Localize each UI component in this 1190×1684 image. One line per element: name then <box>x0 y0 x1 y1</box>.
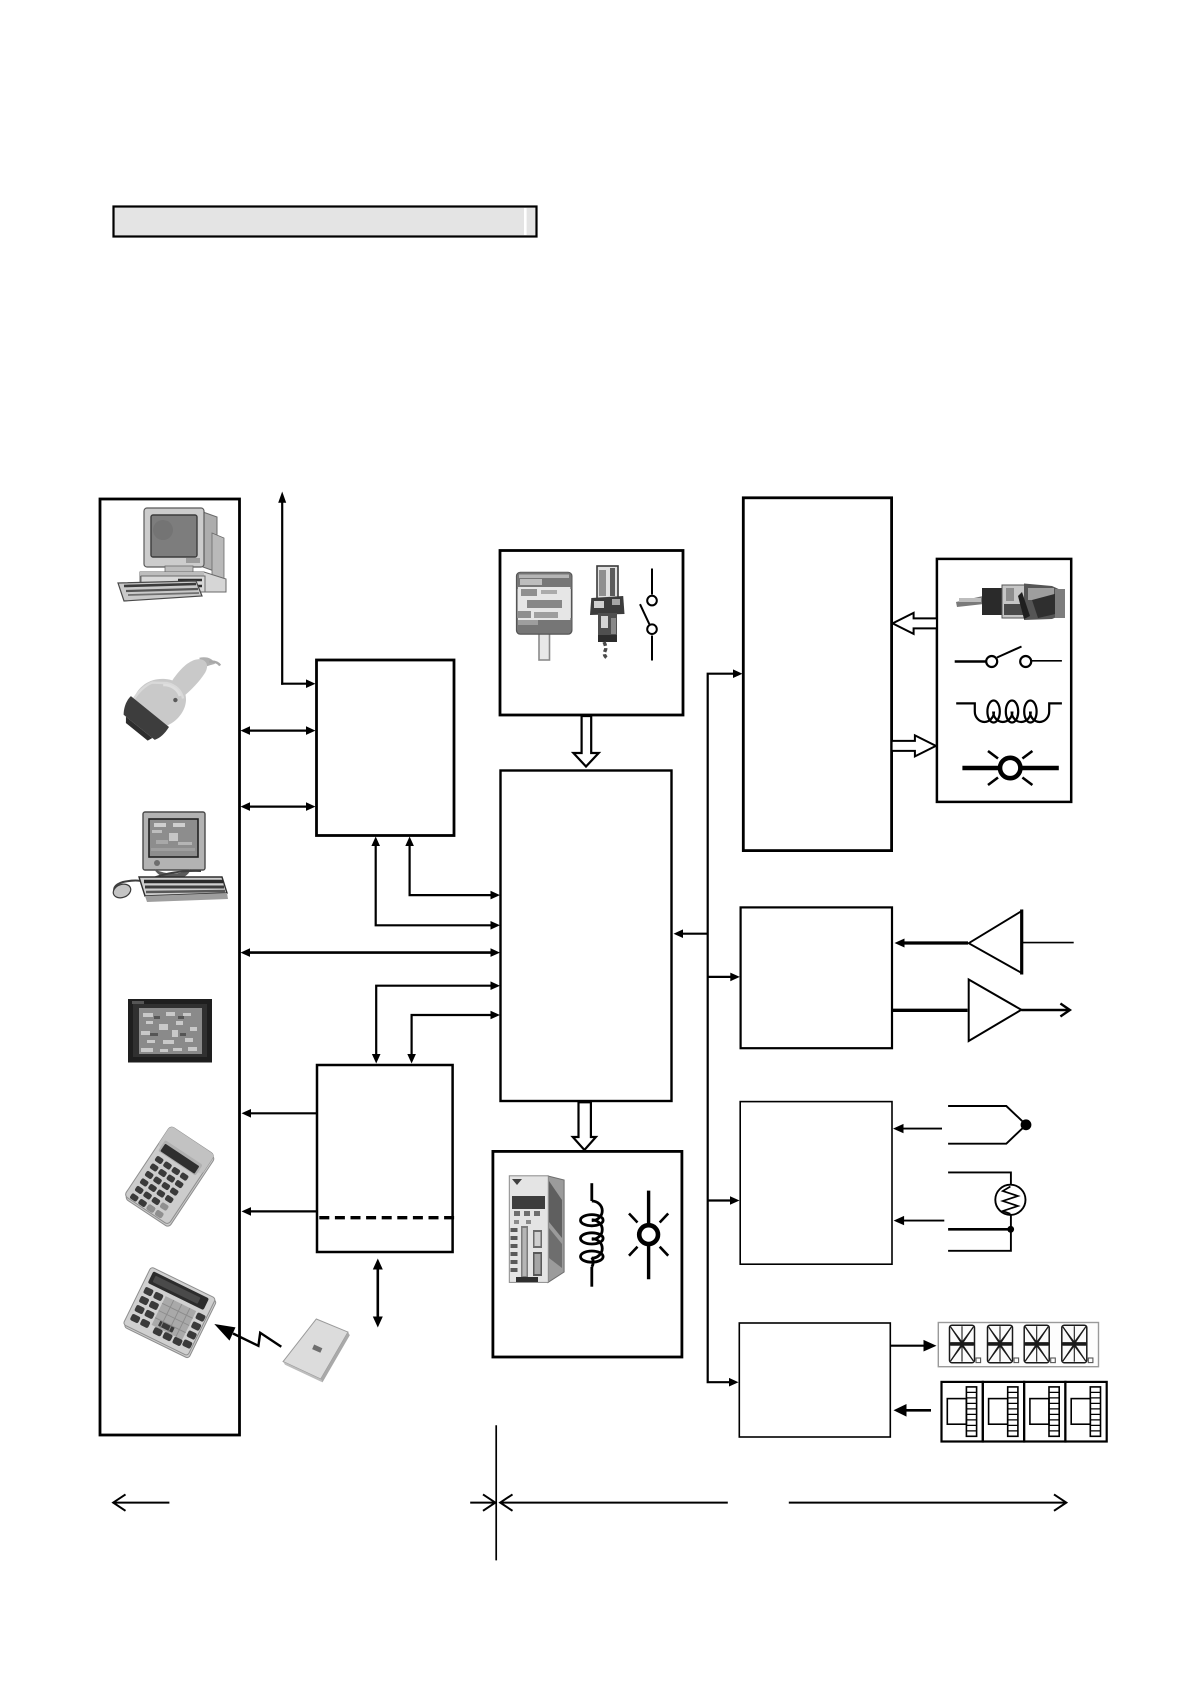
thermocouple symbol <box>893 1106 1031 1144</box>
dimension arrow middle section <box>500 1494 728 1510</box>
alphanumeric display image <box>938 1323 1098 1367</box>
communication module box <box>317 660 455 836</box>
wire L CPU-expansion outer <box>372 981 500 1063</box>
wire up-network arrow <box>278 492 315 689</box>
dimension arrow right section <box>789 1494 1067 1510</box>
desktop PC image <box>118 508 226 601</box>
solenoid valve image <box>956 584 1065 621</box>
temperature module box <box>740 1102 892 1265</box>
barcode scanner image <box>116 634 221 747</box>
NO contact symbol <box>955 647 1062 668</box>
wire expansion bus bidir vertical <box>373 1259 383 1328</box>
rotary encoder image <box>517 573 572 661</box>
wire bidir devices-comm lower <box>241 802 316 811</box>
hollow arrow I/O-to-field <box>892 735 936 756</box>
thumbwheel switch image <box>942 1382 1107 1442</box>
analog input amplifier <box>895 910 1074 975</box>
wire L comm-CPU inner <box>405 837 500 900</box>
memory card image <box>283 1319 350 1382</box>
wireless zigzag arrow <box>214 1324 281 1347</box>
wire expansion-devices lower <box>242 1207 317 1216</box>
servo output box <box>493 1151 682 1357</box>
analog module box <box>741 907 892 1048</box>
CAD workstation image <box>111 812 228 902</box>
wire L CPU-expansion inner <box>407 1011 500 1064</box>
hollow arrow CPU-to-servo <box>573 1102 596 1150</box>
title bar <box>114 207 537 237</box>
proximity sensor image <box>590 566 625 658</box>
RTD symbol <box>894 1172 1026 1250</box>
relay coil symbol <box>956 701 1062 723</box>
HMI panel image <box>128 999 212 1063</box>
thumbwheel in arrow <box>894 1404 932 1417</box>
wire expansion-devices upper <box>242 1109 317 1118</box>
wire bidir devices-CPU long <box>241 948 501 957</box>
sensor input box <box>500 551 683 716</box>
wire bidir devices-comm upper <box>241 726 316 735</box>
servo drive image <box>509 1176 564 1283</box>
expansion module box <box>317 1065 457 1252</box>
bus branch to CPU <box>674 929 708 938</box>
handheld programmer 1 image <box>123 1126 216 1228</box>
wire L comm-CPU outer <box>371 837 500 930</box>
field devices box <box>937 559 1071 802</box>
display out arrow <box>890 1340 936 1352</box>
servo lamp symbol <box>629 1191 668 1280</box>
ARROWS <box>241 492 743 1387</box>
bus branch to analog box <box>708 973 740 982</box>
CPU box <box>501 771 672 1102</box>
handheld programmer 2 image <box>122 1267 217 1359</box>
right I/O bus trunk <box>708 669 743 1386</box>
dimension arrow left section <box>113 1494 169 1510</box>
servo coil symbol <box>581 1183 604 1287</box>
analog output amplifier <box>892 980 1070 1042</box>
programming devices box <box>100 499 240 1435</box>
indicator lamp symbol <box>962 751 1058 785</box>
hollow arrow field-to-I/O <box>893 613 937 634</box>
dimension arrow into divider <box>470 1494 495 1510</box>
display module box <box>739 1323 890 1437</box>
limit switch symbol <box>640 569 657 661</box>
dimension divider line <box>495 1425 497 1560</box>
bus branch to temperature box <box>708 1196 740 1205</box>
digital I/O box <box>743 498 891 851</box>
hollow arrow sensor-to-CPU <box>573 716 598 767</box>
